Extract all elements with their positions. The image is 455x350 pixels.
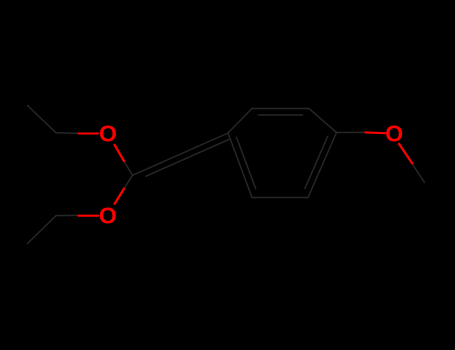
svg-text:O: O xyxy=(99,121,117,147)
svg-text:O: O xyxy=(385,121,403,147)
svg-text:O: O xyxy=(99,203,117,229)
